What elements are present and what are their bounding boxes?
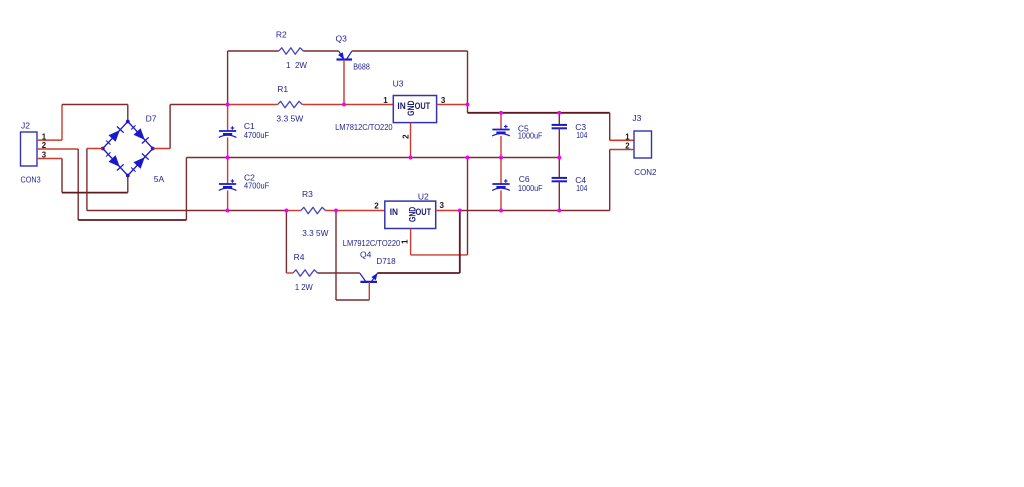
svg-text:104: 104 [576,130,587,140]
wire J2 pin 3 to D7 bottom run [62,192,128,194]
wire C3 top lead [558,113,560,125]
svg-text:J3: J3 [632,113,641,123]
capacitor C4 104 [552,178,567,181]
svg-text:B688: B688 [353,61,370,71]
svg-text:CON2: CON2 [634,167,656,177]
bridge rectifier D7 [101,120,155,178]
wire R1 to U3 input [302,104,393,106]
wire C5 bottom lead [500,136,502,158]
wire D7 bottom lead [127,176,129,193]
node C2 bottom junction [226,209,230,213]
regulator U2 body (LM7912C) [385,201,436,228]
capacitor C5 1000uF [492,125,510,136]
wire U2 output [436,210,460,212]
node C4 bottom junction [557,209,561,213]
wire Q4 base riser [335,211,337,301]
svg-text:4700uF: 4700uF [244,180,269,190]
svg-text:U2: U2 [418,192,429,202]
svg-text:Q3: Q3 [336,33,348,43]
wire R4 dropper from negative raw rail [285,211,287,274]
node Q3 base / U3 input junction [342,103,346,107]
node C6 bottom junction [499,209,503,213]
svg-text:3: 3 [440,201,445,210]
resistor R1 [278,101,303,107]
wire -12V rail [460,210,610,212]
wire top rail dropper to U3 output junction [467,51,469,105]
wire R3 to U2 input [326,210,385,212]
svg-text:1 2W: 1 2W [295,282,313,292]
wire J3 pin 2 stub [610,149,634,151]
capacitor C3 104 [552,125,567,128]
wire Q4 center pin lead [368,282,370,300]
resistor R3 [301,207,326,213]
capacitor C6 1000uF [492,179,510,190]
node C1-C2 ground junction [226,156,230,160]
svg-text:U3: U3 [393,78,404,88]
wire +12V corner dropper [467,105,469,113]
svg-text:104: 104 [576,183,587,193]
svg-text:Q4: Q4 [360,250,372,260]
svg-text:LM7812C/TO220: LM7812C/TO220 [335,122,393,132]
node U3 ground junction [409,156,413,160]
wire R4 to Q4 [318,272,360,274]
wire Q4 base bottom run [336,299,369,301]
svg-text:D718: D718 [376,256,395,266]
wire R3 left lead [286,210,301,212]
wire D7 right stub [153,148,170,150]
wire C5 top lead [500,113,502,130]
svg-text:3.3 5W: 3.3 5W [302,228,328,238]
svg-text:1: 1 [401,239,410,244]
regulator U3 body (LM7812C) [393,96,436,123]
svg-text:IN: IN [390,207,398,217]
wire D7 left dropper [86,149,88,211]
wire +12V rail [468,112,610,114]
svg-text:3.3 5W: 3.3 5W [276,113,303,123]
svg-text:1000uF: 1000uF [518,131,543,141]
wire J2 pin 2 dropper [77,149,79,220]
wire Q4 collector run [377,272,459,274]
wire C4 top lead [558,158,560,178]
connector J3 (CON2) [634,131,652,158]
node C1 top junction [226,103,230,107]
node C3 top junction [557,111,561,115]
node U2 output junction [458,209,462,213]
wire C3 bottom lead [558,128,560,157]
node R3-R4 junction [284,209,288,213]
wire U3 output [437,104,468,106]
wire C1 bottom lead [227,137,229,157]
node C5 top junction [499,111,503,115]
wire Q3 collector to top rail right [352,50,468,52]
wire C1 junction riser to top rail [227,51,229,105]
svg-text:1: 1 [625,132,630,141]
svg-text:4700uF: 4700uF [244,130,269,140]
svg-text:R1: R1 [277,84,288,94]
transistor Q4 (D718 NPN) [360,273,378,282]
node C3-C4 ground junction [557,156,561,160]
node U2 ground junction [466,156,470,160]
svg-text:2: 2 [374,202,379,211]
svg-text:R2: R2 [276,30,287,40]
wire ground rail [186,157,559,159]
svg-text:3: 3 [441,96,446,105]
svg-text:1 2W: 1 2W [286,60,307,70]
wire Q3 base dropper [343,60,345,105]
wire D7 top lead [127,105,129,122]
connector J2 (CON3) [21,132,38,166]
wire U2 ground riser to ground rail [467,158,469,255]
svg-text:OUT: OUT [415,101,431,111]
wire C2 top lead [227,158,229,185]
wire top rail left segment [228,50,279,52]
wire D7 left stub [87,148,103,150]
resistor R4 [293,270,318,276]
svg-text:OUT: OUT [416,207,432,217]
wire J2 pin 2 stub [37,148,78,150]
wire R2 to Q3 emitter [303,50,338,52]
wire C6 top lead [500,158,502,185]
wire negative raw rail [87,210,287,212]
node R3 right / Q4 base junction [334,209,338,213]
svg-text:LM7912C/TO220: LM7912C/TO220 [343,238,401,248]
wire U2 ground run [411,254,468,256]
node C5-C6 ground junction [499,156,503,160]
wire J2 pin 1 riser [61,105,63,141]
wire C1 top lead [227,105,229,132]
svg-text:5A: 5A [154,174,165,184]
svg-text:D7: D7 [146,114,157,124]
node U3 output junction [466,103,470,107]
svg-text:IN: IN [397,101,405,111]
transistor Q3 (B688 PNP) [337,51,353,59]
wire C1 junction to R1 [228,104,278,106]
wire U3 ground dropper [410,123,412,158]
resistor R2 [279,48,304,54]
svg-text:R3: R3 [302,189,313,199]
wire D7 right riser [169,105,171,149]
wire J2 pin 2 bottom run [78,219,186,221]
wire J2 pin 3 stub [37,158,62,160]
wire J3 pin 1 stub [610,139,634,141]
svg-text:1000uF: 1000uF [518,183,543,193]
svg-text:1: 1 [383,96,388,105]
wire J2 pin 2 riser to ground rail [185,158,187,221]
wire -12V riser from J3 pin 2 [609,150,611,211]
svg-text:J2: J2 [21,120,30,130]
svg-text:2: 2 [401,134,410,139]
wire J2 pin 1 to D7 top run [62,104,128,106]
wire C2 bottom lead [227,190,229,210]
wire U2 ground dropper [410,229,412,255]
svg-text:CON3: CON3 [21,174,41,184]
wire R4 left lead [286,272,293,274]
wire C4 bottom lead [558,181,560,210]
wire J2 pin 1 stub [37,139,62,141]
wire C6 bottom lead [500,190,502,210]
wire Q4 collector riser [459,211,461,274]
capacitor C1 4700uF [219,126,237,137]
wire D7 right to C1 run [170,104,228,106]
svg-text:R4: R4 [294,252,305,262]
capacitor C2 4700uF [219,179,237,190]
wire +12V riser to J3 pin 1 [609,113,611,141]
wire J2 pin 3 dropper [61,159,63,193]
